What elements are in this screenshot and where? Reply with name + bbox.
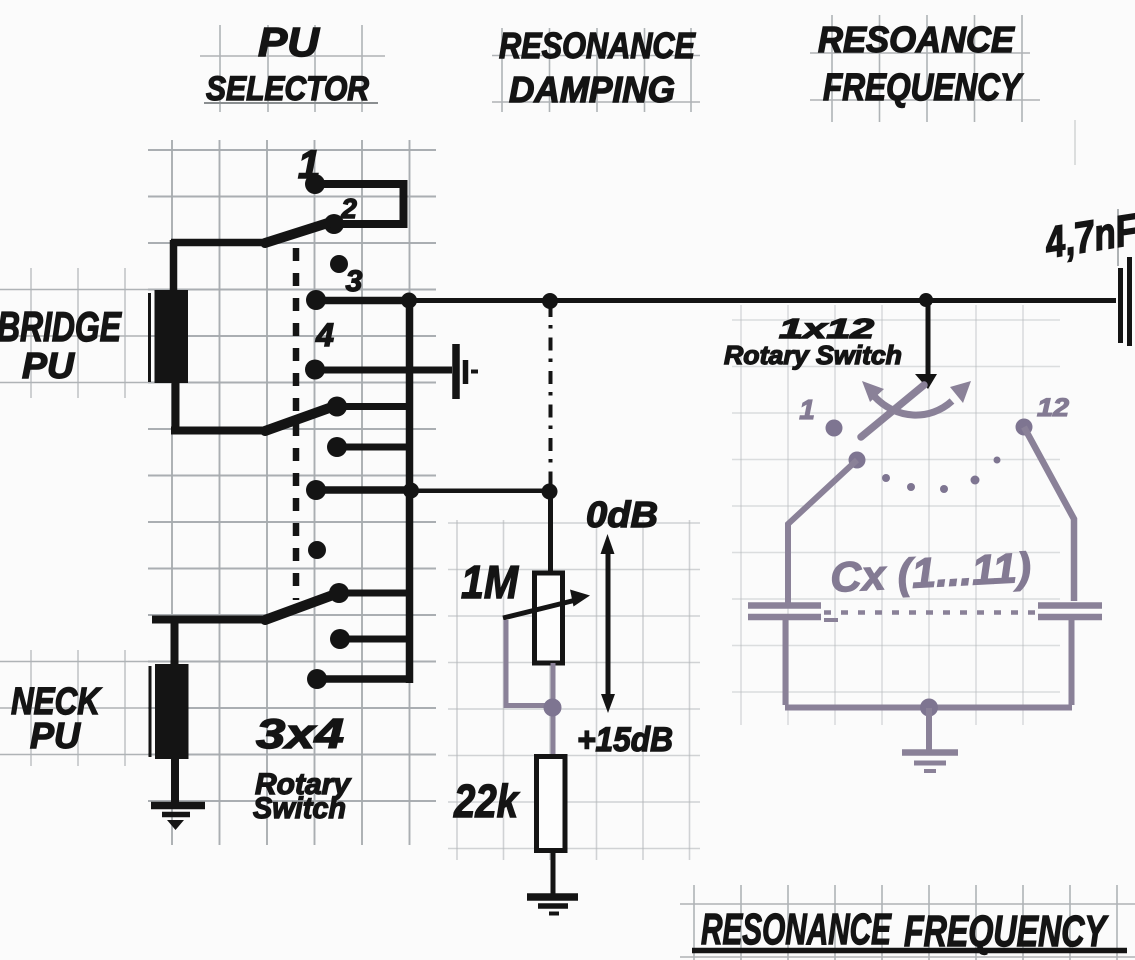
wire S1b throw 2 to bus — [337, 403, 409, 410]
wire pole 3 riser to neck PU — [171, 620, 179, 666]
contact 3 dot — [330, 255, 348, 273]
node junction dot at bus x409 — [401, 293, 417, 309]
capacitor C13 4,7nF plates — [1121, 257, 1130, 346]
wire dash-dot link down from bus — [549, 304, 553, 488]
contact 2 dot — [324, 214, 344, 234]
contact dot S1c lone position — [308, 541, 326, 559]
wire bottom rail to ground (purple) — [926, 708, 932, 750]
wire junction to 1M pot — [548, 491, 553, 574]
svg-text:Switch: Switch — [253, 792, 346, 825]
ground symbol below neck PU — [151, 806, 205, 815]
rotary intermediate position dots (purple) — [882, 457, 1001, 494]
wire left capacitor to bottom rail (purple) — [785, 620, 929, 708]
wire S1c throw 2 to bus — [339, 590, 409, 597]
svg-text:1: 1 — [298, 143, 320, 187]
contact dot S1b throw 4 (second output row) — [306, 480, 326, 500]
contact dot S1b throw 1 (grounded row) — [305, 360, 325, 380]
potentiometer R1 1M body — [535, 573, 563, 663]
svg-text:1M: 1M — [461, 556, 519, 608]
contact 1 dot — [305, 174, 325, 194]
svg-text:0dB: 0dB — [586, 494, 658, 535]
pickup PU1 bridge coil body — [155, 290, 189, 383]
svg-text:3x4: 3x4 — [256, 710, 344, 757]
switch S1b pole wire — [171, 427, 267, 435]
node damping top junction dot — [542, 293, 558, 309]
ground symbol (sideways) at selector — [456, 344, 478, 399]
capacitor C1 left plates (purple) — [748, 606, 821, 618]
wire right-side vertical bus of selector — [406, 299, 414, 683]
node rotary junction dot on bus — [919, 293, 933, 307]
pickup PU2 neck coil thin line — [149, 666, 152, 757]
wire bus to rotary pole — [926, 300, 931, 375]
ground symbol rotary (purple) — [902, 753, 958, 772]
contact 4 dot (output row) — [306, 290, 326, 310]
switch gang dashed link line — [293, 248, 300, 600]
ground symbol below 22k — [527, 897, 578, 914]
node junction dot second output — [403, 483, 419, 499]
wire contact 1 to contact 2 strap — [315, 184, 404, 224]
svg-text:4: 4 — [315, 317, 334, 353]
svg-text:PU: PU — [22, 345, 75, 386]
svg-text:BRIDGE: BRIDGE — [0, 303, 122, 350]
rotary pole tip triangle — [915, 374, 937, 389]
svg-text:1: 1 — [799, 394, 815, 425]
svg-text:2: 2 — [340, 193, 357, 224]
potentiometer R1 wiper arrow — [503, 600, 576, 618]
contact dot position 12 (purple) — [1016, 419, 1033, 436]
switch S1b wiper arm — [265, 407, 332, 431]
svg-text:PU: PU — [258, 19, 320, 65]
switch S1a pole wire from bridge PU — [171, 239, 267, 247]
contact dot S1c throw 3 — [330, 629, 350, 649]
node OUT bus wire: PU selector output to 4,7nF capacitor — [409, 298, 1116, 303]
rotation double arrow (purple) — [874, 396, 952, 415]
contact dot S1c throw 2 — [329, 583, 349, 603]
switch S1a wiper arm — [265, 222, 331, 243]
wire wiper tap (purple) — [504, 620, 554, 757]
wire position1 branch to left capacitor (purple) — [788, 460, 857, 603]
wire S1c throw 3 to bus — [340, 636, 409, 643]
wire 22k to ground — [551, 851, 556, 894]
wire S1c throw 4 to bus — [317, 675, 409, 683]
svg-text:SELECTOR: SELECTOR — [206, 70, 369, 108]
svg-text:12: 12 — [1037, 394, 1069, 422]
resistor R2 22k body — [537, 757, 566, 851]
wire right capacitor to bottom rail (purple) — [929, 620, 1072, 708]
bottom title underline — [692, 948, 1127, 954]
capacitor C11 right plates (purple) — [1038, 606, 1102, 618]
svg-text:RESONANCE: RESONANCE — [499, 25, 696, 66]
wire contact 4 to right bus — [316, 297, 409, 305]
wire neck PU to ground — [171, 757, 179, 803]
contact dot S1b throw 3 — [327, 437, 347, 457]
node bottom rail junction dot (purple) — [920, 699, 938, 717]
selected contact dot below wiper (purple) — [849, 452, 866, 469]
contact dot position 1 (purple) — [826, 420, 843, 437]
pickup PU1 bridge coil thin line — [148, 293, 151, 382]
svg-text:+15dB: +15dB — [577, 721, 673, 759]
pickup PU2 neck coil body — [155, 664, 189, 759]
svg-text:3: 3 — [346, 265, 363, 298]
contact dot S1c throw 4 — [307, 669, 327, 689]
node damping lower junction dot — [542, 484, 558, 500]
svg-text:RESONANCE: RESONANCE — [701, 905, 892, 954]
dotted line between capacitors (purple) — [824, 610, 1036, 615]
wire grounded row to ground symbol — [315, 367, 452, 374]
wire second output row to damping node — [411, 489, 548, 494]
switch S1c pole wire — [152, 616, 267, 624]
svg-text:DAMPING: DAMPING — [509, 69, 675, 110]
svg-text:RESOANCE: RESOANCE — [818, 19, 1015, 60]
svg-text:FREQUENCY: FREQUENCY — [823, 67, 1024, 109]
wire S1b throw 3 to bus — [337, 444, 409, 451]
wire pole 1 riser to bridge PU — [170, 240, 178, 291]
svg-text:Rotary Switch: Rotary Switch — [724, 340, 902, 370]
rotary switch S2 wiper (purple) — [861, 385, 924, 437]
wire bridge PU bottom to pole 2 — [172, 381, 180, 431]
wire position12 branch to right capacitor (purple) — [1024, 427, 1074, 601]
gain range arrow 0dB to +15dB — [606, 546, 611, 702]
svg-text:PU: PU — [30, 715, 81, 756]
wire second output row to bus — [316, 486, 409, 494]
contact dot S1b throw 2 — [327, 397, 347, 417]
svg-text:22k: 22k — [453, 775, 520, 827]
node wiper junction dot (purple) — [544, 699, 562, 717]
switch S1c wiper arm — [265, 595, 333, 620]
